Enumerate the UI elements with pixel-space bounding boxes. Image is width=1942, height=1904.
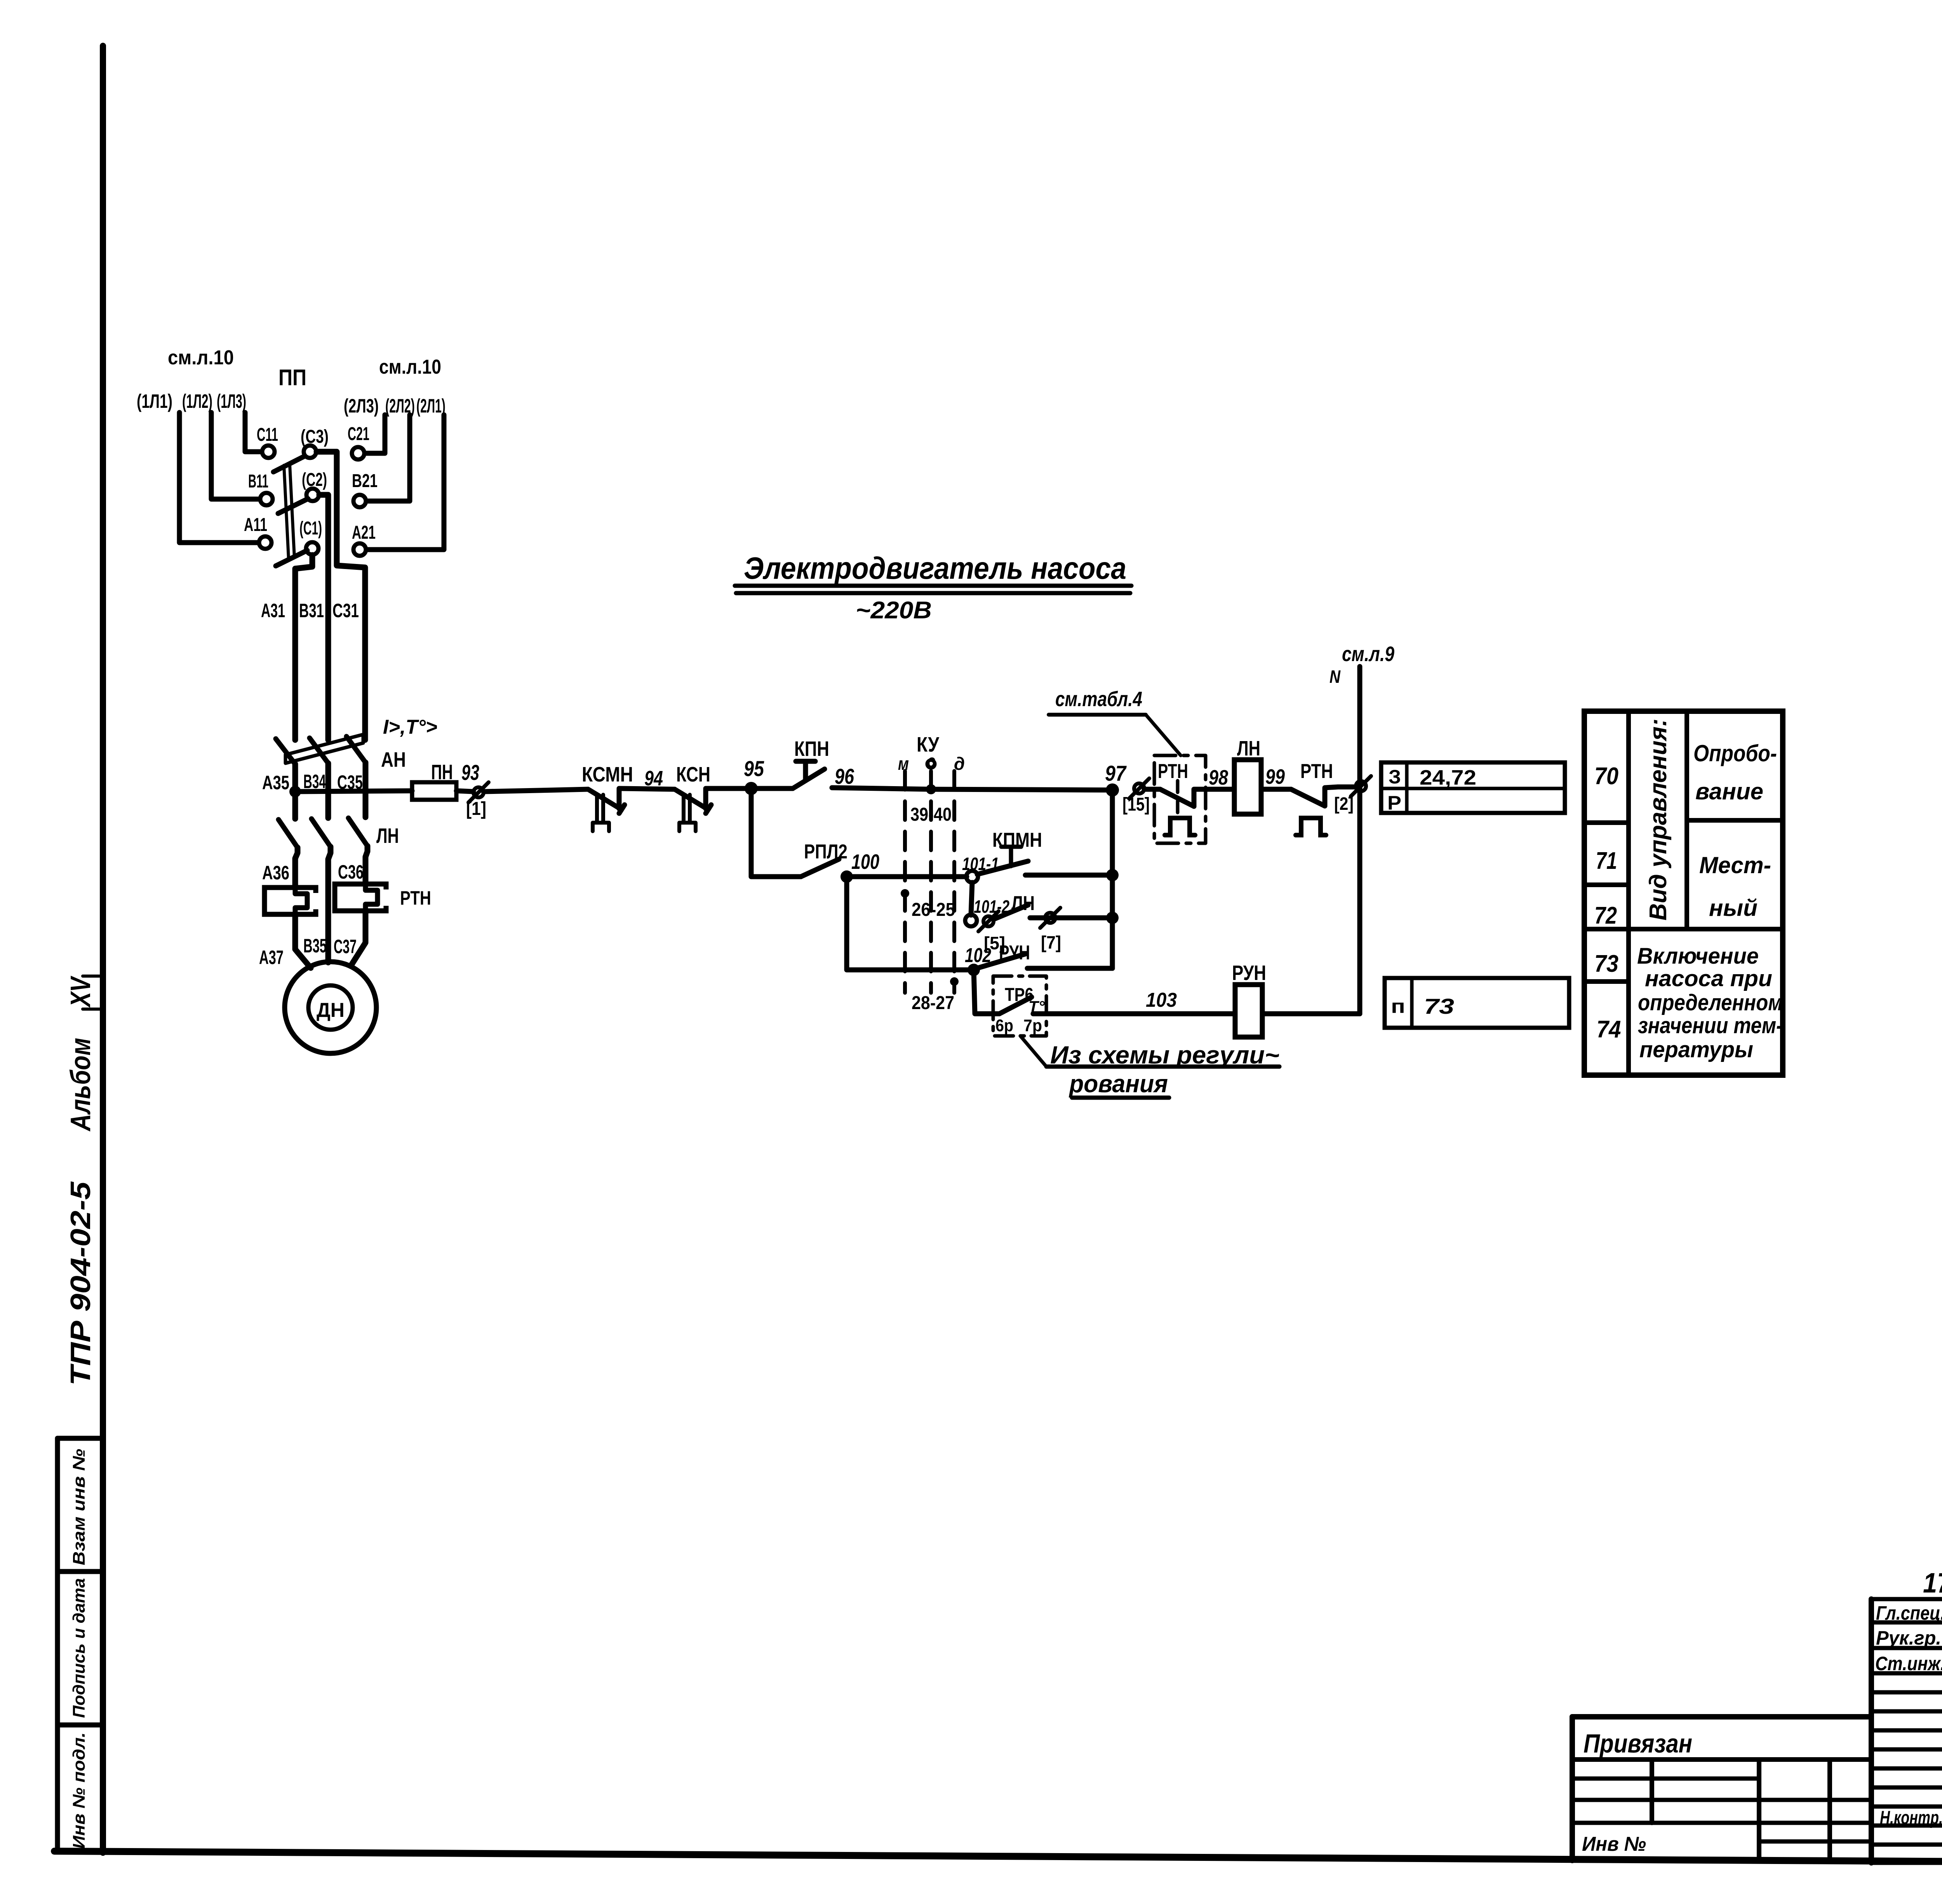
- svg-text:С21: С21: [348, 424, 369, 444]
- svg-text:м: м: [898, 754, 909, 774]
- svg-text:В31: В31: [299, 600, 324, 621]
- junction node 102: [968, 964, 980, 976]
- svg-text:А36: А36: [262, 862, 289, 884]
- svg-text:А21: А21: [352, 522, 376, 543]
- svg-text:74: 74: [1597, 1016, 1621, 1043]
- svg-text:Ст.инж.: Ст.инж.: [1875, 1653, 1942, 1674]
- border frame bottom: [54, 1851, 1942, 1866]
- svg-text:насоса при: насоса при: [1645, 966, 1772, 991]
- svg-text:Взам инв №: Взам инв №: [70, 1449, 89, 1565]
- terminal C11: [262, 446, 275, 458]
- circuit breaker АН blades (3 poles): [276, 739, 295, 764]
- svg-text:70: 70: [1594, 763, 1618, 790]
- wire (C1) to A31 column: [295, 555, 312, 740]
- wire 94 КСМН to КСН: [619, 788, 675, 789]
- terminal B11: [260, 493, 273, 505]
- wire heater C36 to motor: [351, 911, 365, 966]
- terminal (C2): [306, 489, 319, 501]
- svg-text:[7]: [7]: [1041, 932, 1061, 952]
- svg-text:(2Л3): (2Л3): [344, 395, 379, 417]
- svg-text:Включение: Включение: [1637, 943, 1759, 969]
- svg-text:73: 73: [1594, 950, 1618, 977]
- svg-text:РУН: РУН: [1232, 961, 1266, 985]
- leader ТР6 to note: [1020, 1036, 1046, 1067]
- svg-text:17333 - 1Б: 17333 - 1Б: [1923, 1568, 1942, 1599]
- svg-text:ТПР 904-02-5: ТПР 904-02-5: [65, 1181, 96, 1385]
- thermal relay heater element РТН pole A: [265, 887, 321, 915]
- wire between КУ circles: [971, 882, 972, 915]
- wire 100 to КУ contact 101-1: [847, 874, 967, 879]
- svg-text:93: 93: [461, 760, 479, 785]
- wire 1Л3 to C11: [245, 412, 261, 452]
- svg-text:В35: В35: [303, 935, 327, 957]
- svg-text:39-40: 39-40: [910, 804, 952, 825]
- svg-text:28-27: 28-27: [912, 993, 954, 1013]
- svg-text:6р: 6р: [995, 1016, 1013, 1035]
- wire КСН to node 95: [706, 786, 751, 791]
- wire node 95 down to РПЛ2 row: [751, 788, 801, 877]
- svg-text:96: 96: [835, 764, 854, 788]
- svg-text:Мест-: Мест-: [1699, 852, 1771, 878]
- svg-text:д: д: [954, 754, 965, 774]
- svg-text:N: N: [1329, 667, 1341, 687]
- terminal C21: [352, 447, 364, 459]
- contactor ЛН blades (3 poles): [278, 820, 298, 848]
- wire fuse to disconnect 93: [456, 791, 473, 792]
- svg-text:~220В: ~220В: [856, 597, 932, 624]
- terminal A11: [259, 536, 271, 549]
- terminal (C3): [304, 446, 316, 458]
- thermal relay contact РТН (second): [1291, 789, 1325, 806]
- привязан block frame: [1572, 1714, 1871, 1720]
- svg-text:103: 103: [1146, 989, 1177, 1011]
- table З/Р frame: [1381, 762, 1565, 813]
- svg-text:см.л.9: см.л.9: [1342, 642, 1394, 666]
- svg-text:Рук.гр.: Рук.гр.: [1876, 1627, 1941, 1649]
- motor ДН inner circle: [308, 985, 353, 1030]
- svg-text:РТН: РТН: [1300, 760, 1333, 783]
- switch blade C3: [273, 456, 305, 472]
- circuit breaker АН housing band: [285, 734, 363, 763]
- svg-text:Инв № подл.: Инв № подл.: [70, 1732, 89, 1849]
- wire ЛН contact to right vertical: [1030, 915, 1112, 921]
- svg-text:А31: А31: [261, 600, 285, 621]
- КУ pivot circle 101-1: [966, 871, 978, 882]
- svg-text:Вид управления:: Вид управления:: [1645, 719, 1672, 921]
- wire 93 to КСМН: [484, 789, 588, 792]
- push button contact КПН: [793, 761, 825, 788]
- svg-text:КПН: КПН: [794, 737, 829, 761]
- svg-text:см.табл.4: см.табл.4: [1055, 687, 1142, 711]
- svg-text:п: п: [1391, 996, 1405, 1017]
- svg-text:71: 71: [1596, 848, 1617, 874]
- svg-text:Электродвигатель насоса: Электродвигатель насоса: [744, 551, 1126, 585]
- svg-text:А35: А35: [262, 772, 289, 794]
- note underline: [1046, 1065, 1279, 1069]
- wire 1Л1 to A11: [179, 412, 258, 543]
- svg-text:Привязан: Привязан: [1584, 1729, 1692, 1758]
- svg-text:РПЛ2: РПЛ2: [804, 841, 847, 863]
- temperature relay ТР6 (dash-dot box): [993, 976, 1046, 1036]
- wire pole B down to motor: [328, 847, 331, 962]
- wire 102 down to ТР6: [974, 970, 999, 1014]
- svg-text:[1]: [1]: [466, 799, 486, 819]
- junction node 97: [1106, 783, 1119, 797]
- wire 103 ТР6 to РУН coil: [1033, 1011, 1235, 1016]
- svg-text:7р: 7р: [1023, 1016, 1042, 1035]
- svg-text:значении тем-: значении тем-: [1638, 1013, 1783, 1038]
- svg-text:В21: В21: [352, 471, 378, 491]
- terminal B21: [353, 495, 366, 507]
- motor ДН outer circle: [285, 962, 376, 1053]
- wire pole A to heater A36: [295, 848, 298, 888]
- wire (C3) to C31 column: [317, 452, 365, 740]
- svg-text:А37: А37: [259, 947, 284, 968]
- svg-text:ДН: ДН: [317, 999, 345, 1022]
- junction node 100: [840, 870, 853, 883]
- svg-text:98: 98: [1209, 766, 1228, 789]
- svg-text:З: З: [1389, 766, 1401, 788]
- svg-text:Инв №: Инв №: [1582, 1833, 1646, 1855]
- function table frame: [1584, 711, 1783, 1075]
- svg-text:С31: С31: [332, 600, 359, 621]
- svg-text:КПМН: КПМН: [992, 829, 1042, 851]
- terminal A21: [353, 543, 366, 556]
- svg-text:95: 95: [744, 756, 764, 781]
- svg-text:24,72: 24,72: [1420, 766, 1476, 789]
- svg-text:73: 73: [1424, 994, 1454, 1018]
- wire pole C breaker to contactor: [363, 762, 369, 817]
- svg-text:КСМН: КСМН: [582, 763, 633, 786]
- junction dot row2: [1106, 869, 1119, 881]
- table п/73 frame: [1385, 978, 1569, 1028]
- leader см.табл.4 to РТН box: [1146, 715, 1181, 755]
- svg-text:вание: вание: [1695, 778, 1763, 804]
- svg-text:Альбом: Альбом: [65, 1038, 96, 1132]
- svg-text:(1Л3): (1Л3): [217, 390, 246, 412]
- svg-text:26-25: 26-25: [912, 900, 955, 920]
- thermal relay contact РТН (in dash-dot box, см.табл.4): [1154, 755, 1206, 843]
- wire heater A36 to motor: [295, 914, 311, 968]
- sidebar stamp boxes: [55, 1438, 60, 1852]
- wire РУН coil to N line: [1262, 1011, 1360, 1016]
- wire main control row from A35 to fuse: [295, 791, 412, 792]
- svg-text:(2Л1): (2Л1): [416, 395, 445, 417]
- disconnect point 93 [1]: [468, 782, 489, 802]
- contact РУН (НО): [978, 954, 1025, 968]
- svg-text:рования: рования: [1068, 1070, 1168, 1098]
- limit switch contact КСМН: [588, 789, 625, 831]
- svg-text:КСН: КСН: [676, 763, 710, 786]
- wire pole B breaker to contactor: [325, 763, 331, 818]
- svg-text:[15]: [15]: [1122, 794, 1150, 815]
- relay coil РУН: [1235, 985, 1262, 1037]
- svg-text:ЛН: ЛН: [1237, 737, 1260, 760]
- svg-text:РТН: РТН: [1158, 760, 1188, 783]
- КУ position dot 28: [950, 977, 959, 986]
- push button contact КПМН: [977, 861, 1028, 874]
- svg-text:РУН: РУН: [999, 942, 1030, 964]
- disconnect [7]: [1040, 908, 1060, 928]
- svg-text:ПН: ПН: [431, 761, 453, 784]
- terminal (C1): [306, 542, 318, 555]
- wire pole A breaker to contactor: [292, 764, 298, 819]
- limit switch contact КСН: [675, 789, 711, 831]
- svg-text:С37: С37: [334, 936, 357, 957]
- svg-text:пературы: пературы: [1639, 1037, 1753, 1062]
- svg-text:В11: В11: [248, 471, 268, 492]
- svg-text:РТН: РТН: [400, 887, 431, 909]
- contact ЛН 101-2 blade: [994, 905, 1028, 919]
- КУ contact position dot 39-40: [926, 784, 936, 794]
- contact РПЛ2 (НО): [801, 859, 839, 877]
- thermal relay heater element РТН pole C: [335, 884, 392, 911]
- wire 2Л3 to C21: [365, 415, 385, 453]
- wire 98 РТН to ЛН coil: [1206, 787, 1234, 792]
- control switch КУ dashed lines: [903, 771, 907, 993]
- svg-text:ПП: ПП: [278, 365, 306, 390]
- relay coil ЛН: [1234, 760, 1261, 814]
- svg-text:С11: С11: [257, 425, 278, 445]
- svg-text:Р: Р: [1387, 792, 1401, 814]
- svg-text:АН: АН: [381, 748, 406, 771]
- wire 96 КПН to КУ and node 97: [832, 788, 931, 789]
- svg-text:97: 97: [1105, 761, 1127, 785]
- svg-text:(1Л2): (1Л2): [182, 390, 212, 412]
- svg-text:I>,T°>: I>,T°>: [383, 716, 437, 738]
- N line (см.л.9): [1357, 667, 1363, 1014]
- wire node 100 down to РУН row: [847, 877, 974, 970]
- svg-text:см.л.10: см.л.10: [168, 346, 234, 369]
- wire РУН contact to right vertical: [1027, 966, 1112, 971]
- switch linkage (double line): [284, 465, 289, 559]
- svg-text:(С1): (С1): [299, 518, 322, 539]
- wire РТН to N line: [1338, 785, 1360, 790]
- svg-text:(С3): (С3): [301, 426, 329, 447]
- svg-text:XV: XV: [65, 975, 96, 1008]
- svg-text:см.л.10: см.л.10: [379, 356, 441, 378]
- svg-text:Подпись и дата: Подпись и дата: [70, 1578, 89, 1718]
- wire 1Л2 to B11: [211, 412, 259, 499]
- svg-text:(1Л1): (1Л1): [137, 390, 172, 412]
- svg-text:(С2): (С2): [302, 470, 327, 490]
- wire КПМН to right vertical: [1025, 873, 1112, 878]
- svg-text:определенном: определенном: [1638, 990, 1783, 1015]
- svg-text:С36: С36: [338, 861, 364, 883]
- switch blade C1: [276, 550, 307, 566]
- wire [15] to РТН box: [1144, 787, 1160, 792]
- КУ position dot 26: [901, 889, 909, 898]
- disconnect [5]: [978, 911, 999, 931]
- title underline (double): [735, 584, 1131, 588]
- title block signature table: [1871, 1597, 1942, 1601]
- contact ТР6 blade: [999, 997, 1032, 1014]
- small circle on КУ middle line: [927, 760, 935, 768]
- disconnect at N junction: [1351, 776, 1371, 796]
- junction node A35 (tap to control circuit): [289, 786, 301, 797]
- junction node 95: [745, 782, 758, 795]
- svg-text:94: 94: [644, 767, 663, 790]
- junction dot row3: [1106, 912, 1119, 924]
- svg-text:99: 99: [1265, 765, 1285, 788]
- wire 99 ЛН coil to РТН contact: [1261, 787, 1291, 792]
- svg-text:Гл.спец.: Гл.спец.: [1876, 1602, 1942, 1624]
- wire (C2) to B31 column: [319, 495, 328, 740]
- svg-text:Н.контр.: Н.контр.: [1880, 1808, 1942, 1828]
- svg-text:ный: ный: [1709, 895, 1758, 921]
- wire 2Л2 to B21: [367, 415, 410, 501]
- привязан lower table: [1650, 1760, 1654, 1823]
- svg-text:ЛН: ЛН: [376, 824, 399, 848]
- wire 2Л1 to A21: [367, 415, 444, 550]
- wire pole C to heater C36: [365, 846, 367, 884]
- svg-text:72: 72: [1594, 902, 1617, 929]
- svg-text:Опробо-: Опробо-: [1693, 740, 1777, 766]
- svg-text:А11: А11: [244, 515, 267, 535]
- КУ pivot circle 101-2: [965, 915, 977, 926]
- disconnect point [15]: [1129, 778, 1149, 799]
- right vertical from node 97 to РУН row: [1110, 790, 1115, 968]
- border frame left vertical: [100, 46, 106, 1853]
- switch blade C2: [278, 499, 308, 513]
- svg-text:100: 100: [851, 850, 879, 874]
- fuse ПН: [412, 782, 456, 800]
- wire 95 to КПН: [751, 786, 793, 791]
